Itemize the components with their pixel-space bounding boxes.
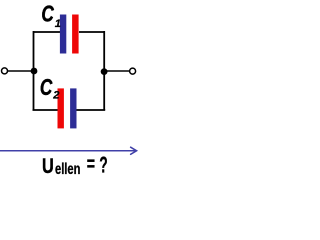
wire top branch right segment (79, 31, 104, 33)
arrow (blue) shaft (0, 150, 136, 152)
svg-text:1: 1 (55, 18, 61, 30)
wire left vertical (33, 31, 35, 110)
svg-text:=: = (87, 153, 95, 176)
svg-text:ellen: ellen (55, 161, 80, 178)
capacitor C2 left plate (red) (58, 88, 64, 128)
wire bottom branch right segment (76, 109, 105, 111)
svg-text:C: C (40, 74, 53, 100)
wire right terminal lead (104, 70, 130, 72)
wire left terminal lead (7, 70, 34, 72)
svg-text:C: C (41, 1, 54, 27)
node right junction (101, 68, 108, 75)
arrow (blue) head (131, 147, 137, 154)
svg-text:U: U (42, 154, 54, 178)
node left junction (31, 68, 38, 75)
left terminal circle (2, 68, 8, 74)
svg-text:?: ? (99, 151, 108, 177)
wire bottom branch left segment (33, 109, 59, 111)
capacitor C1 right plate (red) (72, 15, 79, 54)
svg-text:2: 2 (52, 90, 59, 102)
right terminal circle (130, 68, 136, 74)
wire right vertical (103, 31, 105, 110)
capacitor C1 left plate (blue) (60, 15, 66, 54)
wire top branch left segment (34, 31, 61, 33)
capacitor C2 right plate (blue) (70, 88, 76, 128)
